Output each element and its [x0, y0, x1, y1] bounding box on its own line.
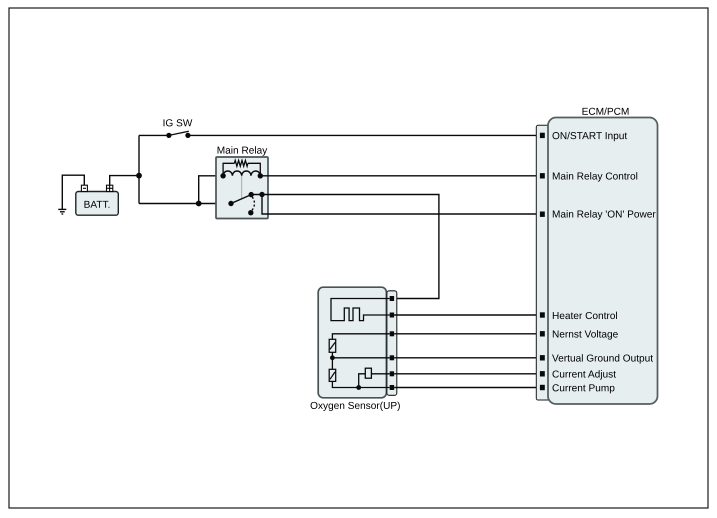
node: coil left terminal: [220, 173, 225, 178]
wire: IG SW line from junction to switch: [139, 134, 167, 136]
pin label ON/START Input: [552, 132, 627, 141]
node: junction bottom rail: [356, 385, 361, 390]
oxygen sensor pins: [390, 296, 394, 390]
node: junction battery/bus: [136, 173, 142, 179]
resistor: relay parallel resistor: [223, 160, 260, 175]
wire: pin 3 to ECM Nernst Voltage: [394, 333, 542, 335]
node: coil right terminal: [258, 173, 263, 178]
wire: lower feed from bus to relay switch pole: [139, 203, 231, 205]
wire: coil link (mechanical): [241, 176, 243, 199]
relay Main Relay box: [216, 146, 268, 218]
resistor: pump cell: [329, 369, 336, 381]
oxygen sensor box: [311, 287, 400, 411]
wire: pin 6 to ECM Current Pump: [394, 387, 542, 389]
wire: junction up to coil left: [199, 176, 223, 204]
resistor: nernst cell: [329, 339, 336, 352]
relay switch arm: [228, 192, 254, 206]
relay coil: [223, 171, 260, 176]
ground: [58, 209, 66, 214]
switch IG SW: [164, 119, 193, 138]
wire: pin 2 to ECM Heater Control: [394, 314, 542, 316]
wire: nernst cell top to pin 3: [332, 334, 389, 340]
node: relay NO contact: [259, 192, 264, 197]
pin label Main Relay 'ON' Power: [553, 210, 656, 219]
pin label Heater Control: [553, 312, 617, 319]
wire: pin 4 to ECM Vertual Ground Output: [394, 357, 542, 359]
wire: NO contact down and right to ECM Main Relay 'ON' Power: [262, 195, 542, 215]
wire: battery negative to ground: [62, 175, 84, 209]
pin label Vertual Ground Output: [552, 354, 653, 363]
wire: junction down to pump cell: [331, 358, 333, 370]
wire: nernst bottom to junction and pin 4: [332, 352, 389, 358]
wire: NO contact right, down to oxygen sensor pin 1: [251, 195, 439, 299]
wire: pin 5 to ECM Current Adjust: [394, 373, 542, 375]
battery negative terminal: [81, 185, 87, 191]
resistor: adjust element: [365, 368, 371, 378]
wire: battery positive to bus: [110, 176, 139, 192]
pin label Current Adjust: [553, 370, 616, 379]
node: junction between cells: [330, 355, 335, 360]
wire: junction up to adjust resistor: [359, 374, 366, 388]
pin label Nernst Voltage: [553, 330, 618, 339]
ECM/PCM U1 box: [548, 107, 658, 404]
battery positive terminal: [107, 185, 113, 191]
node: junction coil feed: [196, 201, 202, 207]
wire: coil right to ECM Main Relay Control: [260, 175, 542, 177]
ECM pins: [540, 133, 545, 391]
wire: pump cell bottom rail to pin 6: [332, 381, 389, 387]
node: relay NC contact: [248, 210, 253, 215]
pin label Main Relay Control: [553, 172, 637, 181]
pin label Current Pump: [553, 384, 615, 393]
wire: adjust element to pin 5: [371, 373, 389, 375]
waveform: heater pulse signal: [331, 299, 390, 321]
relay switch travel arc (dashed): [252, 197, 255, 211]
wire: switch to ECM ON/START pin: [188, 134, 542, 136]
wire: vertical bus at x=139: [138, 135, 140, 203]
oxygen sensor connector strip: [387, 291, 397, 396]
battery BATT.: [76, 192, 119, 216]
ECM connector strip: [536, 125, 550, 400]
